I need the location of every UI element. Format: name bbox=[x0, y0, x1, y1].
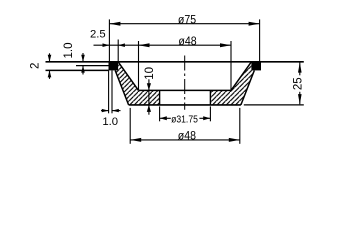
dim 2: lower arrow bbox=[49, 70, 51, 79]
dim 1.0 top: lower arrow bbox=[82, 66, 84, 75]
dim 2.5: inner rim edge extension line bbox=[117, 40, 119, 62]
dim phi48 bottom: left extension line bbox=[129, 108, 131, 144]
left outer wall edge bbox=[115, 71, 128, 105]
right abrasive rim block bbox=[251, 61, 261, 70]
right outer wall edge bbox=[241, 71, 254, 105]
svg-text:25: 25 bbox=[292, 77, 304, 90]
dim phi48 top: left extension line bbox=[138, 41, 140, 90]
left abrasive rim block bbox=[109, 61, 119, 70]
bore left edge bbox=[159, 90, 161, 105]
dim phi48 top: left arrowhead bbox=[139, 43, 150, 47]
dim 1.0 bottom: left extension line bbox=[108, 70, 110, 113]
dim phi48 bottom: right extension line bbox=[239, 108, 241, 144]
svg-text:1.0: 1.0 bbox=[102, 116, 118, 128]
wheel section: top surface line (also ext line for dim 2 and dim 25) bbox=[46, 61, 304, 63]
svg-text:ø48: ø48 bbox=[178, 34, 196, 48]
dim 2: upper arrow bbox=[49, 53, 51, 62]
svg-text:2: 2 bbox=[29, 63, 41, 69]
dim 1.0 bottom: right arrow bbox=[112, 110, 121, 112]
dim phi48 top: right arrowhead bbox=[220, 43, 231, 47]
bore right edge bbox=[209, 90, 211, 105]
dim 25: top arrowhead pointing up bbox=[298, 62, 302, 72]
dim phi48 top + dim 2.5: shared dimension line bbox=[94, 44, 232, 46]
dim phi48 bottom: dimension line bbox=[130, 139, 240, 141]
rim bottom extension line bbox=[46, 69, 109, 71]
dim 25: bottom arrowhead pointing down bbox=[298, 94, 302, 104]
dim 25: dimension line lower segment bbox=[299, 92, 301, 105]
svg-text:ø31.75: ø31.75 bbox=[171, 114, 198, 125]
right wall + base hatch region bbox=[210, 62, 254, 105]
dim phi75: left arrowhead bbox=[109, 22, 120, 26]
dim 1.0 bottom: right extension line bbox=[111, 70, 113, 113]
recess floor line bbox=[139, 89, 232, 91]
dim phi48 top: right extension line bbox=[230, 41, 232, 90]
dim phi75: dimension line bbox=[109, 23, 259, 25]
dim phi31.75: left extension line bbox=[159, 106, 161, 121]
vertical centerline bbox=[184, 56, 186, 110]
dim phi75: right arrowhead bbox=[249, 22, 260, 26]
dim phi31.75: left arrow pointing left bbox=[160, 117, 171, 119]
wheel bottom line bbox=[129, 104, 241, 106]
dim 10: lower arrow pointing up at bottom bbox=[148, 105, 150, 115]
wall top far-side line bbox=[76, 65, 109, 67]
dim 10: line through base bbox=[148, 90, 150, 105]
left inner wall edge bbox=[118, 62, 138, 91]
svg-text:2.5: 2.5 bbox=[90, 29, 106, 41]
dim phi48 bottom: left arrowhead bbox=[130, 138, 141, 142]
dim phi48 bottom: right arrowhead bbox=[229, 138, 240, 142]
svg-text:10: 10 bbox=[144, 67, 156, 80]
dim 2.5: right-pointing arrowhead outside left bbox=[103, 43, 110, 47]
dim 1.0 top: upper arrow bbox=[82, 53, 84, 62]
dim phi31.75: right arrow pointing right bbox=[199, 117, 210, 119]
bottom extension line for dim 25 bbox=[244, 104, 304, 106]
svg-text:ø48: ø48 bbox=[178, 129, 196, 143]
dim phi31.75: right extension line bbox=[209, 106, 211, 121]
dim 25: dimension line upper segment bbox=[299, 62, 301, 75]
svg-text:1.0: 1.0 bbox=[63, 43, 75, 59]
dim phi75: right extension line bbox=[259, 19, 261, 61]
left wall + base hatch region bbox=[115, 62, 159, 105]
right inner wall edge bbox=[231, 62, 251, 91]
dim 2.5: left-pointing arrowhead outside right bbox=[118, 43, 125, 47]
dim phi75: left extension line bbox=[108, 19, 110, 61]
svg-text:ø75: ø75 bbox=[178, 13, 196, 27]
dim 1.0 bottom: left arrow bbox=[101, 110, 109, 112]
dim 10: upper arrow pointing down at floor bbox=[148, 79, 150, 90]
